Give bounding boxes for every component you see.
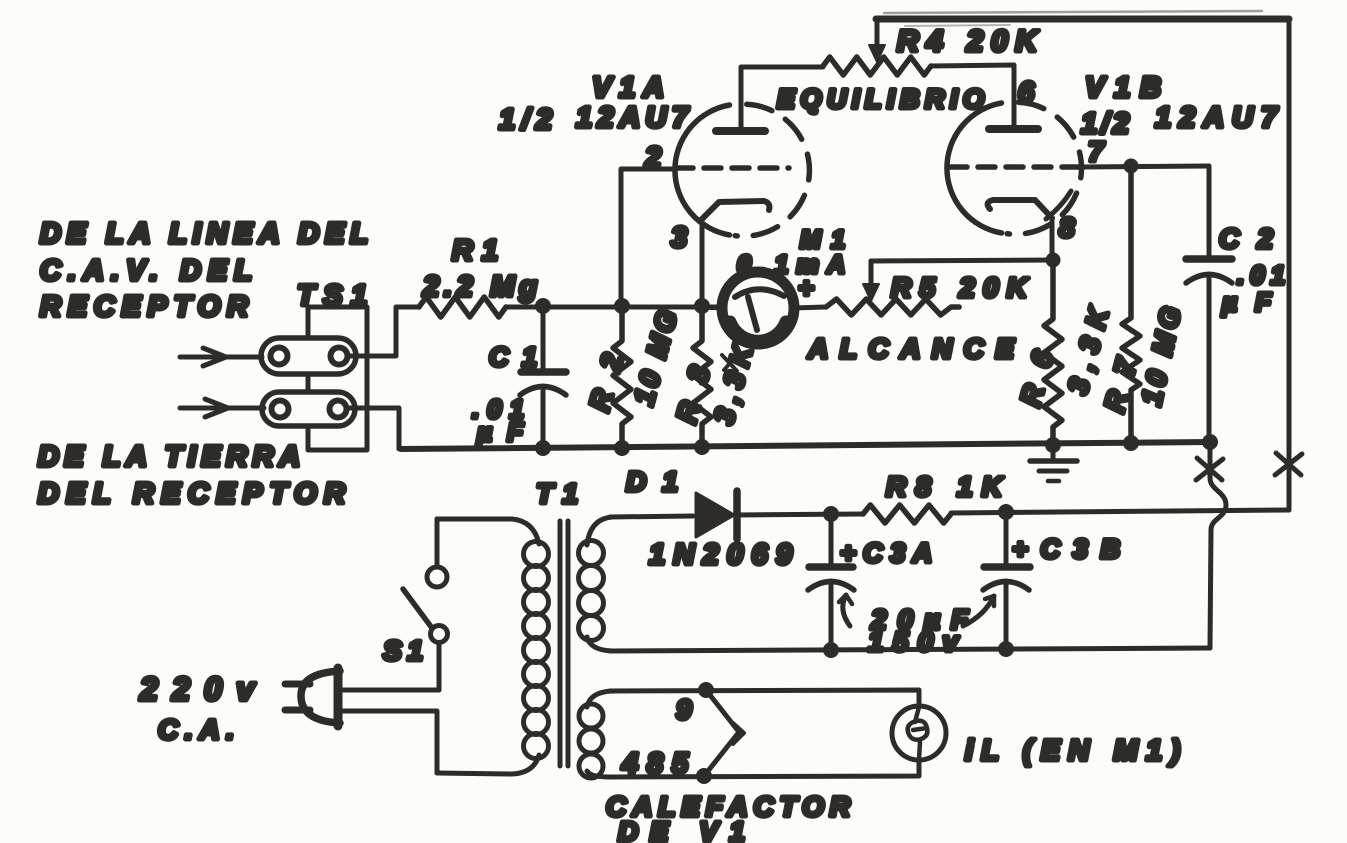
transformer T1 primary winding <box>437 519 549 774</box>
tube V1B envelope <box>947 102 1082 234</box>
node C3A bottom <box>823 642 839 658</box>
terminal strip TS1 lower terminal <box>262 392 355 426</box>
transformer T1 heater winding <box>579 691 612 778</box>
svg-text:3: 3 <box>671 222 687 254</box>
tube V1A grid <box>676 165 789 171</box>
node pin7/R7 junction <box>1124 159 1139 174</box>
capacitor C2 <box>1186 166 1232 442</box>
wire input line from C.A.V. with arrow <box>180 348 262 366</box>
svg-text:C2: C2 <box>1219 223 1273 254</box>
svg-text:CALEFACTOR: CALEFACTOR <box>606 791 851 822</box>
resistor R5 <box>826 299 959 315</box>
svg-text:µF: µF <box>1221 287 1272 317</box>
wire R8 to B+ riser <box>951 510 1289 513</box>
svg-text:2.2 Mg: 2.2 Mg <box>422 271 537 303</box>
wire pin2 of V1A down to R2 node <box>621 169 676 306</box>
node R2 ground <box>614 440 630 456</box>
wire V1A plate to R4 <box>741 67 823 131</box>
wire R1 to tube node <box>506 305 724 310</box>
wire top B+ rail <box>876 11 1289 26</box>
node pin8 junction <box>1046 253 1061 268</box>
node R3 ground <box>694 439 710 455</box>
wire pin3 of V1A down to meter node <box>700 219 705 306</box>
node C3A top <box>823 506 839 522</box>
wire HV secondary to diode <box>610 516 693 517</box>
capacitor C3A <box>808 514 854 650</box>
svg-text:12AU7: 12AU7 <box>576 102 690 134</box>
stray x mark <box>722 355 737 371</box>
svg-text:DE V1: DE V1 <box>618 816 745 843</box>
switch S1 <box>403 519 448 690</box>
wire rectifier bottom rail <box>610 648 1210 651</box>
svg-text:+C3B: +C3B <box>1012 534 1120 564</box>
plug 220v <box>285 668 340 726</box>
wire plug to switch <box>342 688 439 693</box>
svg-text:1N2069: 1N2069 <box>649 539 792 571</box>
svg-text:485: 485 <box>621 748 689 780</box>
terminal strip TS1 upper terminal <box>261 338 356 374</box>
node R6 ground <box>1045 437 1061 453</box>
svg-text:.01: .01 <box>1237 260 1285 290</box>
svg-text:M1: M1 <box>800 226 845 254</box>
node C1 ground <box>535 440 551 456</box>
wire TS1 upper terminal to R1 <box>347 307 419 356</box>
wire diode to R8 <box>737 514 863 515</box>
wire pin8 node to R5 wiper <box>871 260 1053 261</box>
wire TS1 lower terminal to ground rail <box>346 408 399 449</box>
heater tap selector chevron <box>704 690 744 776</box>
node R2 top <box>614 298 630 314</box>
tube V1A plate <box>716 127 765 135</box>
lamp iL <box>892 706 946 760</box>
tube V1A cathode <box>702 201 769 219</box>
svg-text:7: 7 <box>1088 136 1105 167</box>
node C3B bottom <box>998 641 1014 657</box>
wire pin8 of V1B down to R5/R6 node <box>1050 218 1055 259</box>
meter M1 <box>722 272 794 344</box>
wire plug to primary bottom <box>342 711 437 773</box>
resistor R7 <box>1122 166 1140 443</box>
svg-text:3,3K: 3,3K <box>708 341 759 428</box>
wire pin7 of V1B to C2 <box>1081 166 1209 167</box>
svg-text:EQUILIBRIO: EQUILIBRIO <box>777 84 984 114</box>
node R3/meter <box>694 298 710 314</box>
svg-text:10 MG: 10 MG <box>628 307 683 409</box>
transformer T1 HV secondary winding <box>579 517 613 651</box>
arrow to C3B <box>963 596 994 626</box>
svg-text:TS1: TS1 <box>297 280 367 312</box>
wire ground node down with hop over B+ <box>1210 442 1226 648</box>
svg-text:C.A.: C.A. <box>158 714 234 745</box>
svg-text:C.A.V. DEL: C.A.V. DEL <box>40 255 252 287</box>
svg-text:S1: S1 <box>383 635 423 666</box>
potentiometer R5 wiper arrow <box>863 261 879 301</box>
svg-text:220v: 220v <box>139 671 256 707</box>
svg-text:10 MG: 10 MG <box>1136 304 1187 408</box>
svg-text:12AU7: 12AU7 <box>1155 102 1279 134</box>
svg-text:R1: R1 <box>452 235 498 267</box>
svg-text:D1: D1 <box>626 466 678 497</box>
resistor R8 <box>863 505 951 523</box>
svg-text:6: 6 <box>1018 77 1035 109</box>
capacitor C3B <box>983 512 1030 648</box>
svg-text:V1A: V1A <box>592 72 664 104</box>
node R1/C1 <box>535 298 551 314</box>
transformer T1 core <box>560 521 568 766</box>
svg-text:R4 20K: R4 20K <box>897 25 1039 58</box>
wire meter leads <box>702 307 826 308</box>
svg-text:R5 20K: R5 20K <box>891 272 1029 303</box>
node heater tap 9 <box>698 682 714 698</box>
svg-text:DE LA TIERRA: DE LA TIERRA <box>38 441 300 473</box>
svg-text:DEL RECEPTOR: DEL RECEPTOR <box>38 478 345 510</box>
svg-text:C1: C1 <box>489 342 537 372</box>
diode D1 <box>696 491 737 539</box>
label 1/2 12AU7 (V1B) <box>1081 102 1279 140</box>
node heater tap 485 <box>696 768 712 784</box>
wire heater top <box>610 690 919 707</box>
svg-text:DE LA LINEA DEL: DE LA LINEA DEL <box>40 218 368 250</box>
wire R4 to V1B plate <box>931 65 1014 129</box>
svg-text:3,3K: 3,3K <box>1062 303 1115 398</box>
wire input line from tierra with arrow <box>180 399 264 417</box>
resistor R4 <box>823 57 931 75</box>
resistor R6 <box>1044 260 1062 444</box>
node R7 ground <box>1123 435 1139 451</box>
connection mark X2 <box>1275 453 1302 475</box>
tube V1A envelope <box>675 104 809 236</box>
wire TS1 mounting bracket <box>308 307 367 450</box>
svg-text:150v: 150v <box>868 626 959 657</box>
svg-text:8: 8 <box>1059 212 1075 243</box>
svg-text:V1B: V1B <box>1085 72 1161 104</box>
wire heater bottom <box>608 759 919 777</box>
svg-text:9: 9 <box>676 694 692 725</box>
resistor R3 <box>693 307 711 448</box>
resistor R2 <box>613 306 631 448</box>
wire ground rail <box>401 442 1210 449</box>
tube V1B cathode <box>988 191 1071 219</box>
node C2 ground <box>1202 434 1218 450</box>
svg-text:+C3A: +C3A <box>840 538 932 568</box>
tube V1B grid <box>950 164 1081 170</box>
label 1/2 12AU7 (V1A) <box>499 102 690 136</box>
svg-text:RECEPTOR: RECEPTOR <box>40 291 248 323</box>
svg-text:R8 1K: R8 1K <box>886 471 1004 502</box>
svg-text:1/2: 1/2 <box>499 104 552 136</box>
wire right B+ riser <box>1287 19 1292 510</box>
svg-text:iL (EN M1): iL (EN M1) <box>965 735 1180 767</box>
node C3B top <box>998 504 1014 520</box>
capacitor C1 <box>520 307 566 449</box>
potentiometer R4 wiper arrow <box>869 19 885 62</box>
wire TS1 link between terminals <box>306 374 311 392</box>
svg-text:T1: T1 <box>536 478 578 509</box>
ground symbol <box>1030 445 1077 481</box>
tube V1B plate <box>989 125 1038 133</box>
svg-text:ALCANCE: ALCANCE <box>807 333 1015 364</box>
arrow to C3A <box>839 595 852 626</box>
connection mark X1 <box>1196 458 1223 480</box>
resistor R1 <box>419 297 506 317</box>
